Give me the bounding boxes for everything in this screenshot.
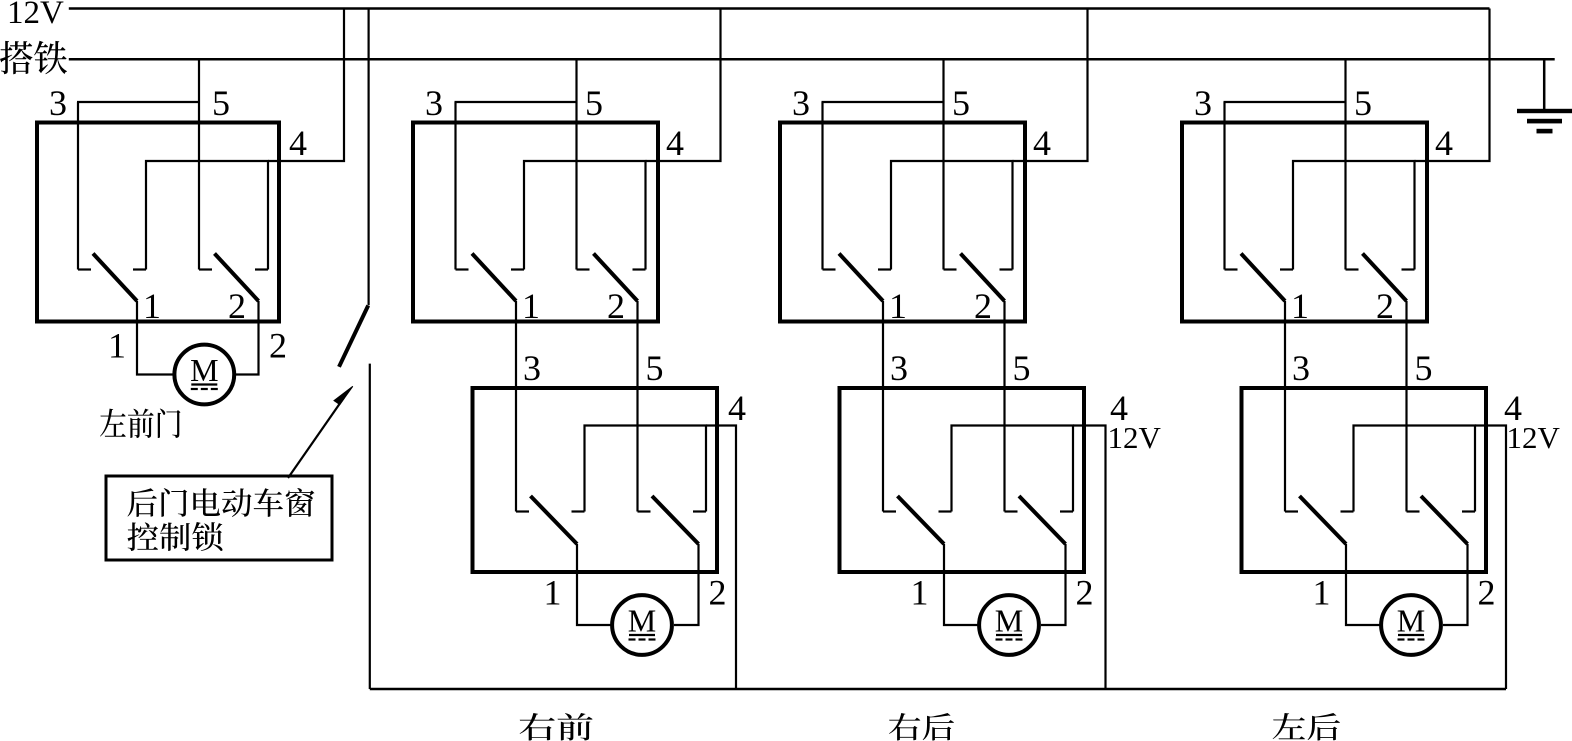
svg-text:5: 5 bbox=[1415, 348, 1433, 388]
switch blade 2 of S1 (左前门) bbox=[215, 254, 259, 302]
wire terminal 4 of S2b (右前 door) to bottom bus bbox=[706, 426, 736, 690]
label 左后 bbox=[1273, 713, 1340, 741]
svg-text:1: 1 bbox=[544, 573, 562, 613]
wire 3-5 link of S1 (左前门) bbox=[77, 101, 199, 103]
svg-text:12V: 12V bbox=[7, 0, 64, 31]
svg-text:2: 2 bbox=[709, 573, 727, 613]
wire bottom bus bbox=[370, 688, 1506, 691]
wire terminal 4 U-link inside S3 (右后 master) bbox=[891, 161, 1013, 270]
switch box S3 (右后 master) outline bbox=[780, 123, 1025, 322]
switch box S2 (右前 master) outline bbox=[413, 123, 658, 322]
svg-text:1: 1 bbox=[522, 286, 540, 326]
svg-text:5: 5 bbox=[1354, 83, 1372, 123]
label text line 1 后门电动车窗 bbox=[128, 488, 315, 517]
svg-text:3: 3 bbox=[890, 348, 908, 388]
svg-text:12V: 12V bbox=[1507, 420, 1561, 455]
wire lock switch feed from 12V bus bbox=[368, 9, 370, 306]
wire S2b (右前 door) pin1 to motor bbox=[577, 544, 611, 625]
switch blade 2 of S4b (左后 door) bbox=[1421, 496, 1468, 544]
switch blade 1 of S1 (左前门) bbox=[93, 254, 137, 302]
svg-text:3: 3 bbox=[1292, 348, 1310, 388]
wire terminal 4 of S3 (右后 master) to 12V bus bbox=[1013, 9, 1088, 162]
wire S1 pin2 to motor M1 bbox=[235, 301, 259, 375]
wire terminal 4 U-link inside S2 (右前 master) bbox=[524, 161, 646, 270]
wire S1 pin1 to motor M1 bbox=[137, 301, 174, 375]
wire terminal 4 of S2 (右前 master) to 12V bus bbox=[646, 9, 721, 162]
wire terminal 5 of S4 (左后 master) to ground bus bbox=[1344, 59, 1346, 269]
svg-text:2: 2 bbox=[1478, 573, 1496, 613]
wire terminal 5 of S2 (右前 master) to ground bus bbox=[575, 59, 577, 269]
lock switch blade (后门电动车窗控制锁) bbox=[339, 306, 368, 367]
wire terminal 3 drop into S4 (左后 master) bbox=[1223, 102, 1225, 270]
wire terminal 3 contact of S3b (右后 door) bbox=[882, 301, 884, 512]
switch blade 2 of S4 (左后 master) bbox=[1363, 254, 1407, 302]
svg-text:M: M bbox=[190, 352, 218, 388]
svg-text:4: 4 bbox=[1033, 123, 1051, 163]
label 右后 bbox=[889, 713, 954, 741]
contact feet of S3b (右后 door) bbox=[883, 510, 896, 512]
wire S4b (左后 door) pin1 to motor bbox=[1346, 544, 1380, 625]
svg-text:1: 1 bbox=[911, 573, 929, 613]
switch blade 1 of S2 (右前 master) bbox=[472, 254, 516, 302]
motor M 右前 bbox=[612, 595, 672, 655]
svg-text:M: M bbox=[995, 603, 1023, 639]
svg-text:12V: 12V bbox=[1108, 420, 1162, 455]
svg-text:5: 5 bbox=[212, 83, 230, 123]
wire terminal 4 of S4 (左后 master) to 12V bus bbox=[1415, 9, 1490, 162]
net label 搭铁 (ground bus) bbox=[0, 41, 67, 74]
contact feet of S4b (左后 door) bbox=[1285, 510, 1298, 512]
svg-text:1: 1 bbox=[1291, 286, 1309, 326]
contact feet of S2 (右前 master) bbox=[456, 268, 469, 270]
contact feet of S3 (右后 master) bbox=[823, 268, 836, 270]
svg-text:1: 1 bbox=[889, 286, 907, 326]
callout arrow to lock switch bbox=[288, 386, 353, 478]
wire lock switch output bbox=[369, 364, 371, 689]
wire terminal 4 U-link inside S1 (左前门) bbox=[146, 161, 268, 270]
switch blade 1 of S2b (右前 door) bbox=[531, 496, 578, 544]
switch box S4 (左后 master) outline bbox=[1182, 123, 1427, 322]
wire terminal 3 drop into S2 (右前 master) bbox=[454, 102, 456, 270]
svg-text:2: 2 bbox=[607, 286, 625, 326]
switch blade 1 of S3b (右后 door) bbox=[898, 496, 945, 544]
svg-text:2: 2 bbox=[269, 326, 287, 366]
wire terminal 4 U-link inside S3b (右后 door) bbox=[952, 426, 1074, 512]
motor M 右后 bbox=[979, 595, 1039, 655]
svg-text:1: 1 bbox=[143, 286, 161, 326]
switch blade 1 of S4 (左后 master) bbox=[1241, 254, 1285, 302]
svg-text:4: 4 bbox=[289, 123, 307, 163]
wire terminal 3 contact of S2b (右前 door) bbox=[515, 301, 517, 512]
wire terminal 5 contact of S4b (左后 door) bbox=[1405, 301, 1407, 512]
wire terminal 4 of S3b (右后 door) to bottom bus bbox=[1073, 426, 1106, 690]
contact feet of S1 (左前门) bbox=[78, 268, 91, 270]
wire S4b (左后 door) pin2 to motor bbox=[1443, 544, 1468, 625]
switch blade 2 of S3b (右后 door) bbox=[1019, 496, 1066, 544]
svg-text:2: 2 bbox=[1376, 286, 1394, 326]
switch box S2b (右前 door) outline bbox=[473, 388, 718, 572]
svg-text:4: 4 bbox=[1435, 123, 1453, 163]
switch blade 2 of S3 (右后 master) bbox=[961, 254, 1005, 302]
wire terminal 5 of S1 (左前门) to ground bus bbox=[198, 59, 200, 269]
svg-text:1: 1 bbox=[1313, 573, 1331, 613]
wire 3-5 link of S3 (右后 master) bbox=[822, 101, 944, 103]
wire 3-5 link of S2 (右前 master) bbox=[455, 101, 577, 103]
wire terminal 3 contact of S4b (左后 door) bbox=[1284, 301, 1286, 512]
svg-text:4: 4 bbox=[728, 388, 746, 428]
wire 3-5 link of S4 (左后 master) bbox=[1224, 101, 1346, 103]
switch box S3b (右后 door) outline bbox=[840, 388, 1085, 572]
label 左前门 bbox=[100, 408, 180, 437]
switch box S4b (左后 door) outline bbox=[1242, 388, 1487, 572]
contact feet of S4 (左后 master) bbox=[1225, 268, 1238, 270]
wire 12V bus bbox=[69, 7, 1490, 10]
wire S2b (右前 door) pin2 to motor bbox=[674, 544, 699, 625]
svg-text:5: 5 bbox=[952, 83, 970, 123]
wire terminal 4 U-link inside S2b (右前 door) bbox=[585, 426, 707, 512]
svg-text:3: 3 bbox=[425, 83, 443, 123]
wire S3b (右后 door) pin1 to motor bbox=[944, 544, 978, 625]
svg-text:3: 3 bbox=[1194, 83, 1212, 123]
svg-text:5: 5 bbox=[646, 348, 664, 388]
svg-text:2: 2 bbox=[1076, 573, 1094, 613]
svg-text:M: M bbox=[1397, 603, 1425, 639]
svg-text:3: 3 bbox=[49, 83, 67, 123]
wire ground bus drop bbox=[1543, 59, 1546, 110]
switch blade 1 of S3 (右后 master) bbox=[839, 254, 883, 302]
wire terminal 4 U-link inside S4b (左后 door) bbox=[1354, 426, 1476, 512]
wire terminal 4 of S1 (左前门) to 12V bus bbox=[268, 9, 344, 162]
motor M 左后 bbox=[1381, 595, 1441, 655]
svg-text:5: 5 bbox=[585, 83, 603, 123]
contact feet of S2b (右前 door) bbox=[516, 510, 529, 512]
ground symbol bbox=[1517, 109, 1572, 134]
wire S3b (右后 door) pin2 to motor bbox=[1041, 544, 1066, 625]
wire terminal 5 contact of S3b (右后 door) bbox=[1003, 301, 1005, 512]
switch blade 2 of S2b (右前 door) bbox=[652, 496, 699, 544]
svg-text:5: 5 bbox=[1013, 348, 1031, 388]
switch blade 2 of S2 (右前 master) bbox=[594, 254, 638, 302]
label box 后门电动车窗控制锁 bbox=[106, 476, 332, 560]
wire terminal 5 contact of S2b (右前 door) bbox=[636, 301, 638, 512]
wire terminal 3 drop into S3 (右后 master) bbox=[821, 102, 823, 270]
wire terminal 4 of S4b (左后 door) to bottom bus bbox=[1475, 426, 1506, 690]
switch box S1 (左前门) outline bbox=[37, 123, 279, 322]
label 右前 bbox=[520, 713, 593, 740]
svg-text:1: 1 bbox=[108, 326, 126, 366]
wire 搭铁 bus bbox=[69, 58, 1555, 61]
svg-text:2: 2 bbox=[974, 286, 992, 326]
svg-text:3: 3 bbox=[523, 348, 541, 388]
svg-text:3: 3 bbox=[792, 83, 810, 123]
svg-text:4: 4 bbox=[666, 123, 684, 163]
svg-text:2: 2 bbox=[228, 286, 246, 326]
svg-text:M: M bbox=[628, 603, 656, 639]
wire terminal 5 of S3 (右后 master) to ground bus bbox=[942, 59, 944, 269]
wire terminal 4 U-link inside S4 (左后 master) bbox=[1293, 161, 1415, 270]
label text line 2 控制锁 bbox=[128, 522, 223, 551]
wire terminal 3 drop into S1 (左前门) bbox=[77, 102, 79, 270]
switch blade 1 of S4b (左后 door) bbox=[1300, 496, 1347, 544]
motor M1 (左前门) bbox=[174, 345, 234, 405]
